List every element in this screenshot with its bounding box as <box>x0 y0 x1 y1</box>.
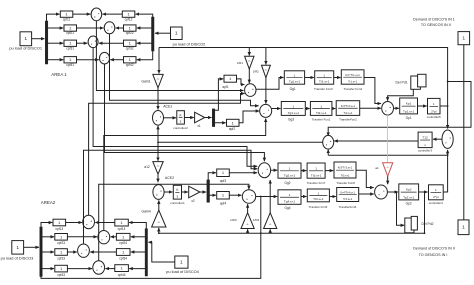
svg-text:Tt2.s+1: Tt2.s+1 <box>316 111 327 115</box>
wire apf2 to s2 <box>239 111 259 123</box>
sum c4 <box>100 52 110 64</box>
wire cpf32 to c3 <box>99 42 124 44</box>
svg-text:cpf43: cpf43 <box>57 273 65 277</box>
gain cpf23 <box>55 234 68 246</box>
gain cpf34 <box>116 249 130 261</box>
svg-text:Kr3*Tr3.s+1: Kr3*Tr3.s+1 <box>338 166 353 170</box>
gain apf1 <box>222 75 236 89</box>
wire f2 bus <box>158 232 426 234</box>
sum s3 <box>382 102 394 116</box>
wire cpf41 to c4 <box>77 59 99 61</box>
svg-text:1: 1 <box>435 188 437 192</box>
label AREA2 <box>41 200 56 205</box>
svg-text:TransferFcn2: TransferFcn2 <box>339 118 357 122</box>
gain 1/R2 <box>253 65 271 78</box>
svg-text:apf4: apf4 <box>220 201 226 205</box>
svg-text:1: 1 <box>289 166 291 170</box>
svg-text:apf3: apf3 <box>220 179 226 183</box>
wire mux2 to cpf43 <box>42 268 54 270</box>
wire c4 to s5 top <box>105 64 265 161</box>
svg-text:2*pi: 2*pi <box>431 109 437 113</box>
svg-text:Gain1: Gain1 <box>141 80 150 84</box>
wire mux to cpf11 <box>47 14 60 21</box>
svg-text:1: 1 <box>292 104 294 108</box>
gain Gain4 B2 <box>141 210 166 228</box>
svg-text:controller5: controller5 <box>427 115 441 119</box>
wire f1 to 1/R1 <box>248 48 250 56</box>
wire 1/R4 to s5 <box>269 180 271 213</box>
wire Del Pd1 to s3 <box>388 89 414 100</box>
wire x1 to mux <box>205 117 212 119</box>
svg-text:-K-: -K- <box>248 60 251 62</box>
wire controller4 to tie <box>443 150 447 192</box>
svg-text:Transfer Fcn4: Transfer Fcn4 <box>344 87 363 91</box>
wire demux to cpf12 <box>136 14 153 17</box>
svg-text:-K-: -K- <box>265 69 268 71</box>
wire mux to cpf41 <box>48 59 63 61</box>
svg-text:Demand of DISCO'S IN 1: Demand of DISCO'S IN 1 <box>413 18 455 22</box>
wire mux to apf2 <box>214 123 226 127</box>
svg-text:x1: x1 <box>197 124 201 128</box>
svg-text:1: 1 <box>462 36 465 42</box>
mux bar left area2 <box>40 227 42 277</box>
sum ACE2 <box>153 185 164 200</box>
wire cpf12 to c1 <box>103 13 123 15</box>
svg-text:Kr1*Tr1.s+1: Kr1*Tr1.s+1 <box>345 73 360 77</box>
wire f1 bus top <box>159 48 448 129</box>
wire cpf43 to c8 <box>67 268 92 270</box>
wire cpf33 to c7 <box>67 251 76 253</box>
wire TF5 to TF6 <box>329 196 336 198</box>
gain 1/R4 <box>253 213 277 229</box>
gain cpf42 <box>124 57 137 67</box>
transfer Transfer Fcn1 <box>310 102 332 122</box>
wire demand1 down <box>463 45 465 220</box>
svg-text:Tp1.s+1: Tp1.s+1 <box>403 109 415 113</box>
svg-text:1: 1 <box>433 102 435 106</box>
wire mux2 to cpf23 <box>42 236 54 238</box>
sum c6 <box>98 231 110 244</box>
svg-text:1: 1 <box>294 73 296 77</box>
svg-text:Tr4.s+1: Tr4.s+1 <box>343 197 353 201</box>
wire f2 to midsum bus <box>328 154 448 156</box>
svg-text:Tg3.s+1: Tg3.s+1 <box>288 111 300 115</box>
wire 1/R2 to s2 <box>265 78 267 104</box>
demux bar right area1 <box>152 17 155 51</box>
svg-text:TO GENCOS IN I: TO GENCOS IN I <box>419 253 448 257</box>
mux bar apf area2 <box>207 180 210 202</box>
wire controller1 to x2 <box>182 191 188 193</box>
svg-text:Tt1.s+1: Tt1.s+1 <box>319 80 330 84</box>
svg-text:Tp2.s+1: Tp2.s+1 <box>403 195 415 199</box>
svg-text:Kr4*Tr4.s+1: Kr4*Tr4.s+1 <box>341 190 356 194</box>
wire cpf14 to c5 <box>95 222 115 224</box>
wire s7 to Gp2 <box>387 191 398 193</box>
wire Gp1 to controller5 <box>418 105 427 107</box>
transfer Gp1 <box>400 98 418 120</box>
wire f1 to 1/R2 <box>265 48 267 65</box>
wire controller2 to x1 <box>184 117 193 119</box>
svg-text:1: 1 <box>323 73 325 77</box>
constant demand 1 <box>458 32 470 45</box>
sum c5 <box>83 215 95 228</box>
wire s5 to Gg2 <box>271 169 278 171</box>
svg-text:-K-: -K- <box>269 224 272 226</box>
wire midsum bottom in <box>327 150 329 156</box>
svg-text:1: 1 <box>315 166 317 170</box>
svg-text:x2: x2 <box>191 199 195 203</box>
wire f2 to 1/R4 <box>269 229 271 233</box>
svg-text:a1: a1 <box>375 166 379 170</box>
svg-text:2*pi: 2*pi <box>433 195 439 199</box>
wire Gp2 to controller4 <box>419 191 428 193</box>
svg-text:1: 1 <box>320 104 322 108</box>
svg-text:Demand of DISCO'S IN II: Demand of DISCO'S IN II <box>413 247 455 251</box>
wire c2 to s2 <box>110 34 259 106</box>
svg-text:1: 1 <box>462 225 465 231</box>
wire demux2 to cpf34 <box>131 251 145 253</box>
wire TF6 to s7 <box>359 193 374 195</box>
gain cpf32 <box>124 40 137 50</box>
transfer Gg3 <box>281 102 305 122</box>
constant source pu load of DISCO1 <box>9 32 42 51</box>
wire Gp2 tap to f2 <box>424 192 426 233</box>
svg-text:ACE2: ACE2 <box>165 176 174 180</box>
transfer Transfer Fcn2 <box>336 101 360 122</box>
controller1 K/s <box>170 185 185 205</box>
svg-text:pu load of DISCO1: pu load of DISCO1 <box>9 46 42 51</box>
svg-text:1: 1 <box>180 260 183 266</box>
svg-text:pu load of DISCO3: pu load of DISCO3 <box>1 255 34 260</box>
svg-text:1/R4: 1/R4 <box>253 218 260 222</box>
wire demux to cpf42 <box>137 51 153 60</box>
transfer Gg1 <box>284 71 304 91</box>
transfer Gg2 <box>278 163 301 185</box>
svg-text:-K-: -K- <box>246 224 249 226</box>
wire demux2 to cpf14 <box>129 223 146 230</box>
wire apf4 to s6 <box>229 194 241 196</box>
svg-text:1: 1 <box>24 36 27 42</box>
wire mux2 to cpf33 <box>42 251 54 253</box>
svg-text:controller4: controller4 <box>429 201 443 205</box>
svg-text:cpf41: cpf41 <box>66 63 74 67</box>
gain 1/R1 <box>237 56 254 69</box>
constant demand 2 <box>458 220 469 235</box>
svg-text:Gg1: Gg1 <box>290 87 296 91</box>
svg-text:controller2: controller2 <box>173 126 188 130</box>
sum s1 <box>245 84 256 97</box>
wire Gg2 to TF7 <box>301 170 306 172</box>
wire midsum to ACE1 <box>157 126 159 143</box>
gain x2 <box>189 186 200 203</box>
wire Gg4 to TF5 <box>301 196 307 198</box>
gain a1 red <box>375 163 393 177</box>
transfer Transfer Fcn4 <box>341 70 364 91</box>
wire demux to cpf22 <box>137 27 152 29</box>
svg-text:Tr2.s+1: Tr2.s+1 <box>343 111 353 115</box>
transfer T12/s <box>418 132 432 152</box>
gain a12 <box>144 162 163 175</box>
wire TF4 to s3 <box>364 78 381 104</box>
sum s6 <box>242 190 255 204</box>
gain cpf31 <box>64 40 77 50</box>
svg-text:1: 1 <box>317 191 319 195</box>
svg-text:TransferFcn6: TransferFcn6 <box>339 205 357 209</box>
wire f1 loop right <box>328 81 471 136</box>
wire demux to cpf32 <box>137 42 152 44</box>
wire T12 out to midsum <box>334 140 418 142</box>
svg-text:1: 1 <box>175 31 178 37</box>
scope Del Pd1 <box>395 74 426 89</box>
wire apf1 to s1 <box>237 79 245 85</box>
wire src DISCO1 to mux <box>32 38 45 40</box>
wire cpf24 to c6 <box>111 236 117 238</box>
svg-text:cpf42: cpf42 <box>126 63 134 67</box>
svg-text:cpf44: cpf44 <box>118 273 126 277</box>
mux bar left area1 <box>45 21 48 64</box>
gain apf3 <box>217 169 230 183</box>
svg-text:-K-: -K- <box>157 166 160 168</box>
wire s6 to Gg4 <box>256 196 278 198</box>
svg-text:apf2: apf2 <box>229 127 235 131</box>
wire TF1 to TF2 <box>332 108 336 110</box>
wire src DISCO2 to demux <box>155 32 171 34</box>
transfer Transfer Fcn3 <box>314 71 334 91</box>
constant source pu load of DISCO2 <box>171 27 206 46</box>
sum s5 <box>258 163 270 178</box>
svg-text:Gg4: Gg4 <box>284 206 290 210</box>
svg-text:-K-: -K- <box>157 79 160 81</box>
sum tie <box>442 130 453 148</box>
wire cpf31 to c3 <box>77 42 88 44</box>
svg-text:controller1: controller1 <box>170 201 185 205</box>
gain apf2 <box>227 119 240 131</box>
svg-text:T12: T12 <box>422 136 428 140</box>
transfer Gg4 <box>278 190 301 210</box>
svg-text:cpf21: cpf21 <box>66 31 74 35</box>
wire cpf11 to c1 <box>73 13 91 15</box>
svg-text:Transfer Fcn1: Transfer Fcn1 <box>312 118 331 122</box>
svg-text:pu load of DISCO4: pu load of DISCO4 <box>166 269 199 274</box>
svg-text:apf1: apf1 <box>222 85 228 89</box>
wire a12 to ACE2 <box>157 174 159 182</box>
wire a1 red line <box>386 115 388 162</box>
svg-text:Tt4.s+1: Tt4.s+1 <box>313 197 324 201</box>
gain cpf24 <box>116 233 130 245</box>
svg-text:Del Pd2: Del Pd2 <box>421 222 433 226</box>
label ACE1 <box>163 104 172 108</box>
svg-text:1/R2: 1/R2 <box>253 70 259 74</box>
svg-text:Tg2.s+1: Tg2.s+1 <box>284 174 296 178</box>
controller2 K/s <box>173 111 188 131</box>
svg-text:cpf13: cpf13 <box>55 227 63 231</box>
wire Gg3 to TF1 <box>305 108 309 110</box>
wire cpf44 to c8 <box>105 268 114 270</box>
gain cpf21 <box>64 25 77 35</box>
sum ACE1 <box>153 111 164 126</box>
wire ACE1 to controller2 <box>164 117 177 119</box>
gain apf4 <box>217 192 230 206</box>
svg-text:AREA 1: AREA 1 <box>51 72 67 77</box>
sum c3 <box>88 36 98 48</box>
gain cpf41 <box>64 57 77 67</box>
svg-text:Transfer Fcn5: Transfer Fcn5 <box>309 205 328 209</box>
transfer controller5 <box>427 98 441 119</box>
wire s1 to Gg1 <box>256 78 284 90</box>
wire cpf22 to c2 <box>116 27 124 29</box>
sum c8 <box>93 261 105 274</box>
svg-text:ACE1: ACE1 <box>163 104 172 108</box>
svg-text:Tg1.s+1: Tg1.s+1 <box>289 80 301 84</box>
svg-text:1/R1: 1/R1 <box>237 61 243 65</box>
wire c7 to s5 <box>84 150 258 244</box>
wire TF2 to s3 <box>360 107 381 109</box>
svg-text:cpf32: cpf32 <box>126 46 134 50</box>
wire TF3 to TF4 <box>334 77 341 79</box>
svg-text:1/R3: 1/R3 <box>230 218 237 222</box>
svg-text:Transfer Fcn3: Transfer Fcn3 <box>314 87 333 91</box>
sum c1 <box>91 8 102 21</box>
svg-text:1: 1 <box>289 193 291 197</box>
demux bar right area2 <box>145 229 147 276</box>
svg-text:Gp2: Gp2 <box>406 201 412 205</box>
wire mux to cpf21 <box>48 27 63 29</box>
svg-text:a12: a12 <box>144 165 150 169</box>
sum c7 <box>78 244 90 257</box>
svg-text:cpf24: cpf24 <box>119 241 127 245</box>
wire mux to cpf31 <box>48 42 63 44</box>
svg-text:cpf14: cpf14 <box>118 227 126 231</box>
svg-text:cpf12: cpf12 <box>125 17 133 21</box>
svg-text:Gg2: Gg2 <box>284 181 290 185</box>
svg-text:Kr2*Tr2.s+1: Kr2*Tr2.s+1 <box>341 104 356 108</box>
gain cpf43 <box>55 265 68 277</box>
gain 1/R3 <box>230 213 254 229</box>
wire bottom bus <box>41 196 262 279</box>
wire f1 to Gain1 <box>158 48 160 74</box>
wire demux2 to cpf44 <box>129 268 145 270</box>
wire cpf34 to c7 <box>90 251 116 253</box>
svg-text:cpf23: cpf23 <box>57 241 65 245</box>
wire mux2 to cpf13 <box>41 223 52 228</box>
gain cpf11 <box>60 11 73 21</box>
gain cpf33 <box>55 249 68 261</box>
svg-text:Kp2: Kp2 <box>406 188 412 192</box>
svg-text:1: 1 <box>16 245 19 251</box>
wire c1 to s1 <box>96 21 243 91</box>
svg-text:cpf22: cpf22 <box>126 31 134 35</box>
wire src DISCO4 to demux2 <box>148 242 174 262</box>
gain cpf44 <box>115 265 129 277</box>
wire mux4 to apf4 <box>208 194 216 196</box>
label AREA 1 <box>51 72 67 77</box>
wire cpf42 to c4 <box>110 59 123 61</box>
svg-text:cpf31: cpf31 <box>66 46 74 50</box>
svg-text:Gain4: Gain4 <box>141 210 150 214</box>
wire mux to apf1 <box>215 79 223 110</box>
transfer Transfer Fcn5 <box>307 189 329 209</box>
wire Gain4 to ACE2 <box>158 200 160 210</box>
svg-text:TO GENCOS IN II: TO GENCOS IN II <box>421 23 451 27</box>
wire s2 to Gg3 <box>272 108 281 110</box>
gain cpf22 <box>124 25 137 35</box>
transfer controller4 <box>429 185 444 205</box>
svg-text:cpf34: cpf34 <box>119 256 127 260</box>
wire cpf23 to c6 <box>67 236 97 238</box>
wire 1/R3 to s6 <box>247 204 249 213</box>
wire demux2 to cpf24 <box>131 236 145 238</box>
transfer Transfer Fcn7 <box>307 163 326 185</box>
svg-text:Tt3.s+1: Tt3.s+1 <box>311 174 322 178</box>
wire controller5 out <box>440 105 449 107</box>
svg-text:Del Pd1: Del Pd1 <box>395 81 407 85</box>
wire s3 to Gp1 <box>394 107 399 109</box>
wire c5 to s1 <box>89 94 245 216</box>
gain cpf12 <box>122 11 135 21</box>
transfer Transfer Fcn6 <box>337 188 359 210</box>
svg-text:-K-: -K- <box>386 167 389 169</box>
demand text top <box>413 18 455 27</box>
wire x2 to mux4 <box>200 191 206 193</box>
wire src DISCO3 to mux2 <box>24 246 39 248</box>
label ACE2 <box>165 176 174 180</box>
svg-text:Transfer Fcn8: Transfer Fcn8 <box>336 181 355 185</box>
svg-text:Transfer Fcn7: Transfer Fcn7 <box>307 181 326 185</box>
sum midsum <box>323 135 334 149</box>
mux bar apf area1 <box>212 109 215 127</box>
svg-text:Tr3.s+1: Tr3.s+1 <box>340 173 350 177</box>
wire f2 to 1/R3 <box>247 229 249 233</box>
svg-text:controller3: controller3 <box>418 149 432 153</box>
svg-text:Tr1.s+1: Tr1.s+1 <box>348 80 358 84</box>
svg-text:cpf33: cpf33 <box>57 256 65 260</box>
gain cpf13 <box>53 219 66 231</box>
wire Gain1 to ACE1 <box>157 88 159 110</box>
gain x1 <box>195 112 205 128</box>
wire cpf13 to c5 <box>66 222 82 224</box>
svg-text:Kp1: Kp1 <box>406 102 412 106</box>
wire c8 to s6 top <box>99 184 249 260</box>
svg-text:-K-: -K- <box>157 222 160 224</box>
gain Gain1 B1 <box>141 74 163 88</box>
constant source pu load of DISCO4 <box>166 256 199 274</box>
wire c6 to s2 <box>104 119 266 231</box>
gain cpf14 <box>115 219 129 231</box>
wire to Del Pd2 <box>396 191 405 225</box>
wire midsum to a12 <box>157 142 159 161</box>
transfer Transfer Fcn8 <box>334 162 356 185</box>
sum s7 <box>375 185 388 199</box>
wire midsum out <box>157 141 323 143</box>
wire mux4 to apf3 <box>208 173 216 181</box>
svg-text:cpf11: cpf11 <box>63 17 71 21</box>
svg-text:AREA2: AREA2 <box>41 200 56 205</box>
wire TF7 to TF8 <box>325 170 333 172</box>
wire Gg1 to TF3 <box>305 77 314 79</box>
wire tie to T12 <box>433 138 442 140</box>
svg-text:Tg4.s+1: Tg4.s+1 <box>284 200 296 204</box>
sum s2 <box>260 104 272 117</box>
demand text bottom <box>413 247 455 257</box>
transfer Gp2 <box>399 184 419 206</box>
svg-text:Gp1: Gp1 <box>406 116 412 120</box>
scope Del Pd2 <box>405 216 434 232</box>
wire TF8 to s7 <box>356 170 374 187</box>
wire 1/R1 to s1 <box>248 69 250 83</box>
svg-text:pu load of DISCO2: pu load of DISCO2 <box>173 41 206 46</box>
wire a1 to s7 <box>387 176 389 184</box>
wire apf3 to s5 <box>229 172 257 174</box>
